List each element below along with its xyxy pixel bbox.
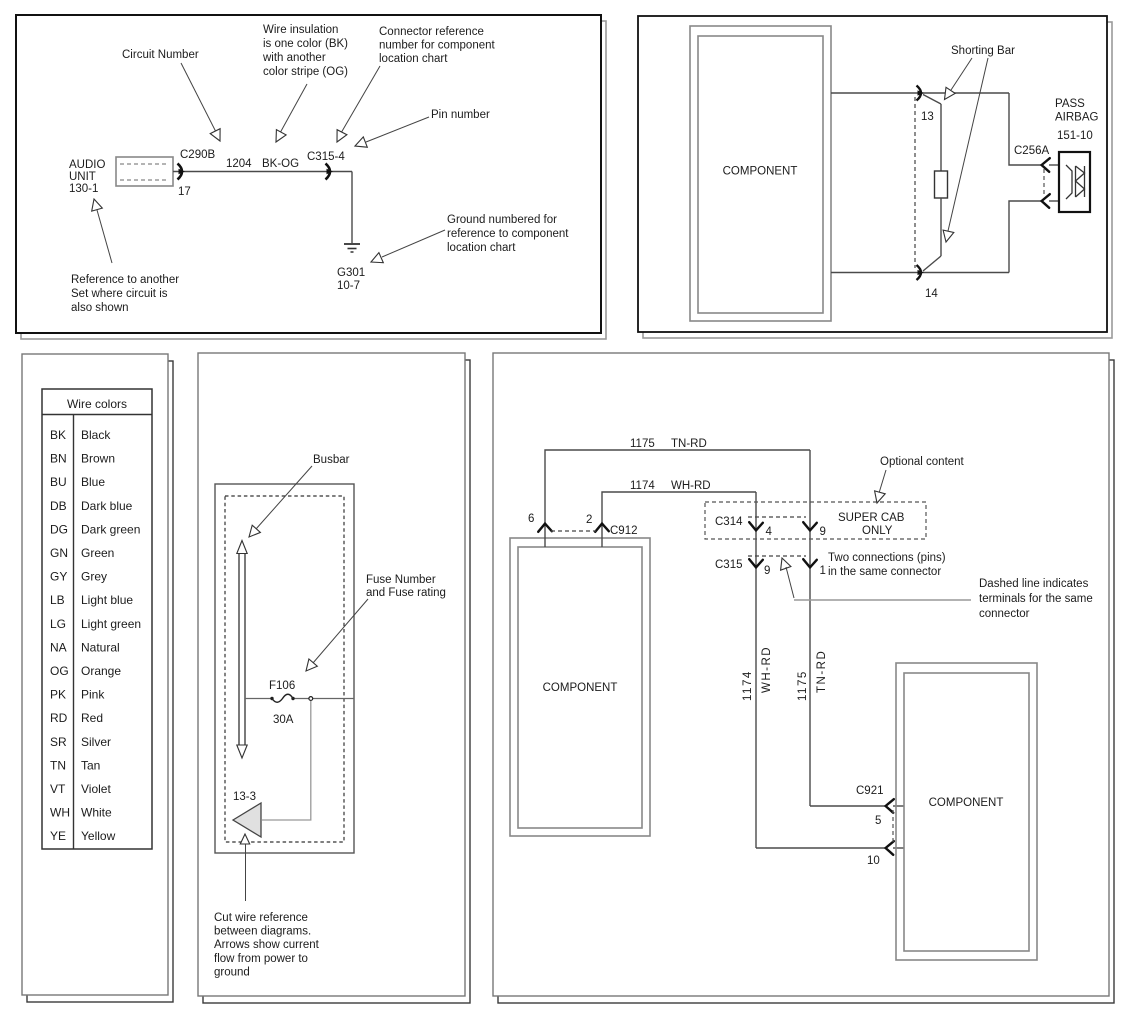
svg-text:TN-RD: TN-RD — [816, 650, 828, 693]
wire: 1175 to C921 pin 5 — [810, 805, 886, 807]
svg-text:9: 9 — [820, 526, 826, 538]
wire: audio unit to C315 — [173, 171, 352, 173]
chevron arrow C921 pin 5 (left) — [886, 799, 894, 813]
arrowhead: reference note (points up) — [92, 199, 103, 211]
svg-text:RD: RD — [50, 711, 68, 725]
leader: shorting bar 2 — [948, 58, 988, 231]
svg-text:Wire colors: Wire colors — [67, 397, 127, 411]
leader: circuit number — [181, 63, 216, 132]
shorting bar vertical wire upper — [940, 104, 942, 171]
wire: to pass airbag pin 1 — [1009, 93, 1042, 165]
arrowhead: pin number — [355, 137, 367, 147]
PANEL C : wire colors panel frame — [22, 354, 168, 995]
svg-text:BK: BK — [50, 428, 66, 442]
dashed connector line C256A — [1043, 169, 1045, 197]
leader line to dashed-line note text — [794, 599, 971, 601]
svg-text:Natural: Natural — [81, 640, 120, 654]
header underline — [42, 414, 152, 416]
arrowhead: fuse — [306, 659, 317, 671]
shorting bar element — [935, 171, 948, 198]
svg-text:number for component: number for component — [379, 40, 496, 52]
dashed connector line 13-14 — [914, 97, 916, 268]
svg-text:WH-RD: WH-RD — [671, 480, 711, 492]
svg-text:30A: 30A — [273, 714, 294, 726]
svg-text:C912: C912 — [610, 525, 638, 537]
svg-text:13-3: 13-3 — [233, 791, 256, 803]
chevron arrow C921 pin 10 (left) — [886, 841, 894, 855]
busbar bar — [238, 553, 240, 746]
chevron arrow pin 2 (up) — [595, 524, 609, 532]
arrowhead: shorting bar 1 — [945, 87, 956, 99]
leader: shorting bar 1 — [951, 58, 972, 90]
leader: fuse — [313, 599, 368, 663]
svg-text:G301: G301 — [337, 267, 365, 279]
chevron arrow pin 6 (up) — [538, 524, 552, 532]
fuse wire — [245, 698, 272, 700]
svg-text:is one color (BK): is one color (BK) — [263, 38, 348, 50]
svg-text:SR: SR — [50, 735, 67, 749]
PANEL D : busbar/fuse panel frame — [198, 353, 465, 996]
svg-text:1: 1 — [820, 565, 826, 577]
svg-text:Silver: Silver — [81, 735, 111, 749]
svg-text:Orange: Orange — [81, 664, 121, 678]
svg-text:C921: C921 — [856, 785, 884, 797]
svg-text:C256A: C256A — [1014, 145, 1049, 157]
leader: wire insulation — [280, 84, 307, 133]
pass airbag internal squib zigzag — [1075, 166, 1077, 197]
leader: cut wire note — [245, 844, 247, 901]
svg-text:UNIT: UNIT — [69, 171, 96, 183]
svg-text:1174: 1174 — [742, 670, 754, 701]
chevron arrow C315 pin 9 (down) — [749, 559, 763, 567]
cut wire reference big arrow — [233, 803, 261, 837]
svg-text:DB: DB — [50, 499, 67, 513]
wire: circuit 1175 TN-RD top run — [545, 450, 810, 547]
svg-text:Pin number: Pin number — [431, 109, 490, 121]
svg-text:GN: GN — [50, 546, 68, 560]
svg-text:WH: WH — [50, 806, 70, 820]
PANEL A : top-left legend panel shadow — [21, 21, 606, 339]
arrowhead: dashed line note (points up-left) — [781, 558, 791, 570]
arrowhead: wire insulation — [276, 130, 286, 142]
svg-text:Black: Black — [81, 428, 111, 442]
svg-text:ground: ground — [214, 966, 250, 978]
svg-text:Pink: Pink — [81, 688, 105, 702]
fuse block solid rect — [215, 484, 354, 853]
PANEL C : wire colors panel shadow — [27, 361, 173, 1002]
connector 14 diagonal — [923, 256, 941, 271]
wire stub pin1 to box — [1049, 164, 1059, 166]
ground G301 symbol — [344, 243, 360, 245]
svg-text:130-1: 130-1 — [69, 183, 98, 195]
wire: pin 14 from component — [831, 272, 1009, 274]
svg-text:NA: NA — [50, 640, 67, 654]
wire stub pin 10 — [893, 847, 904, 849]
svg-text:BN: BN — [50, 452, 67, 466]
svg-text:LB: LB — [50, 593, 65, 607]
leader: reference note — [97, 210, 112, 263]
svg-text:PASS: PASS — [1055, 98, 1085, 110]
svg-text:TN-RD: TN-RD — [671, 438, 707, 450]
svg-text:Two connections (pins): Two connections (pins) — [828, 552, 946, 564]
svg-text:10-7: 10-7 — [337, 280, 360, 292]
svg-text:between diagrams.: between diagrams. — [214, 926, 311, 938]
svg-text:Red: Red — [81, 711, 103, 725]
arrowhead: shorting bar 2 — [943, 230, 954, 242]
svg-text:Fuse Number: Fuse Number — [366, 574, 436, 586]
right component inner box — [904, 673, 1029, 951]
svg-text:Light green: Light green — [81, 617, 141, 631]
svg-text:F106: F106 — [269, 680, 295, 692]
arrowhead: cut wire note (points up) — [240, 834, 249, 844]
dashed connector line C315 — [748, 555, 806, 557]
svg-text:Ground numbered for: Ground numbered for — [447, 214, 557, 226]
arrowhead: circuit number — [210, 129, 220, 141]
svg-text:14: 14 — [925, 288, 938, 300]
wire: 1174 vertical drop — [755, 492, 757, 848]
connector 13 diagonal — [923, 95, 941, 105]
svg-text:13: 13 — [921, 111, 934, 123]
svg-text:Connector reference: Connector reference — [379, 26, 484, 38]
svg-text:also shown: also shown — [71, 302, 129, 314]
svg-text:BU: BU — [50, 475, 67, 489]
svg-text:C315: C315 — [715, 559, 743, 571]
svg-text:Yellow: Yellow — [81, 829, 116, 843]
fuse element — [272, 694, 293, 702]
svg-text:SUPER CAB: SUPER CAB — [838, 512, 905, 524]
wire: pin 13 from component — [831, 92, 1009, 94]
wire from fuse down to cut-wire arrow — [262, 701, 311, 820]
svg-text:AUDIO: AUDIO — [69, 159, 105, 171]
svg-text:OG: OG — [50, 664, 69, 678]
svg-text:Circuit Number: Circuit Number — [122, 49, 199, 61]
left component outer box — [510, 538, 650, 836]
svg-text:White: White — [81, 806, 112, 820]
wire: down to ground — [351, 172, 353, 244]
chevron arrow pin 2 (left) — [1042, 194, 1050, 208]
wire colors table frame — [42, 389, 152, 849]
svg-text:Optional content: Optional content — [880, 456, 965, 468]
right component outer box — [896, 663, 1037, 960]
wire: to pass airbag pin 2 — [1009, 201, 1042, 273]
svg-text:reference to component: reference to component — [447, 228, 569, 240]
svg-text:GY: GY — [50, 570, 67, 584]
wire: 1174 to C921 pin 10 — [756, 847, 886, 849]
svg-text:1174: 1174 — [630, 480, 655, 492]
svg-text:Cut wire reference: Cut wire reference — [214, 912, 308, 924]
svg-text:terminals for the same: terminals for the same — [979, 593, 1093, 605]
svg-text:DG: DG — [50, 522, 68, 536]
svg-text:9: 9 — [764, 565, 770, 577]
svg-text:Wire insulation: Wire insulation — [263, 24, 338, 36]
svg-text:4: 4 — [766, 526, 773, 538]
svg-text:location chart: location chart — [447, 242, 516, 254]
svg-text:COMPONENT: COMPONENT — [723, 166, 798, 178]
svg-text:Dark green: Dark green — [81, 522, 140, 536]
svg-text:C315-4: C315-4 — [307, 151, 345, 163]
svg-text:BK-OG: BK-OG — [262, 158, 299, 170]
super cab only dashed box — [705, 502, 926, 539]
svg-text:COMPONENT: COMPONENT — [543, 682, 618, 694]
svg-text:COMPONENT: COMPONENT — [929, 797, 1004, 809]
chevron arrow C314 pin 4 (down) — [749, 522, 763, 530]
wire: 1175 vertical drop — [809, 450, 811, 806]
svg-text:Grey: Grey — [81, 570, 107, 584]
svg-text:1175: 1175 — [797, 670, 809, 701]
chevron arrow C315 pin 1 (down) — [803, 559, 817, 567]
svg-text:Dashed line indicates: Dashed line indicates — [979, 578, 1089, 590]
svg-text:Set where circuit is: Set where circuit is — [71, 288, 168, 300]
svg-text:in the same connector: in the same connector — [828, 566, 941, 578]
dashed connector line C912 — [551, 530, 596, 532]
svg-text:WH-RD: WH-RD — [761, 646, 773, 693]
pass airbag internal bracket — [1066, 165, 1072, 199]
svg-text:1175: 1175 — [630, 438, 655, 450]
arrowhead: busbar — [249, 525, 260, 537]
svg-text:flow from power to: flow from power to — [214, 953, 308, 965]
fuse output node circle — [309, 697, 313, 701]
svg-text:Brown: Brown — [81, 452, 115, 466]
svg-text:Shorting Bar: Shorting Bar — [951, 45, 1015, 57]
connector C290B arc — [178, 164, 183, 180]
svg-text:Green: Green — [81, 546, 114, 560]
svg-text:TN: TN — [50, 758, 66, 772]
arrowhead: connector reference — [337, 130, 347, 142]
leader: connector reference — [341, 66, 380, 133]
dashed connector line C921 — [892, 810, 894, 844]
PANEL B : top-right panel frame — [638, 16, 1107, 332]
component box dashed inner lines — [120, 163, 169, 165]
svg-text:Arrows show current: Arrows show current — [214, 939, 320, 951]
svg-text:2: 2 — [586, 514, 592, 526]
svg-text:YE: YE — [50, 829, 66, 843]
svg-text:Blue: Blue — [81, 475, 105, 489]
svg-text:with another: with another — [262, 52, 326, 64]
shorting bar vertical wire lower — [940, 198, 942, 256]
connector C315-4 arc — [326, 164, 331, 180]
connector 14 arc — [917, 265, 922, 280]
svg-text:C314: C314 — [715, 516, 743, 528]
chevron arrow C314 pin 9 (down) — [803, 522, 817, 530]
svg-text:Busbar: Busbar — [313, 454, 350, 466]
svg-text:5: 5 — [875, 815, 881, 827]
fuse block dashed rect — [225, 496, 344, 842]
busbar top triangle — [237, 541, 247, 554]
arrowhead: optional content (points down) — [875, 491, 886, 503]
PANEL E : right connectors panel shadow — [498, 360, 1114, 1003]
svg-text:1204: 1204 — [226, 158, 252, 170]
svg-text:Tan: Tan — [81, 758, 100, 772]
svg-text:and Fuse rating: and Fuse rating — [366, 587, 446, 599]
svg-text:Reference to another: Reference to another — [71, 274, 179, 286]
table column divider — [73, 415, 75, 850]
dashed connector line C314 — [748, 516, 806, 518]
arrowhead: ground note — [371, 253, 383, 263]
svg-text:ONLY: ONLY — [862, 525, 893, 537]
svg-text:Light blue: Light blue — [81, 593, 133, 607]
svg-text:LG: LG — [50, 617, 66, 631]
svg-text:6: 6 — [528, 513, 534, 525]
svg-text:Dark blue: Dark blue — [81, 499, 133, 513]
leader: pin number — [366, 117, 429, 142]
svg-text:AIRBAG: AIRBAG — [1055, 112, 1099, 124]
leader: optional content — [879, 470, 886, 493]
svg-text:17: 17 — [178, 186, 191, 198]
svg-text:PK: PK — [50, 688, 66, 702]
leader: ground note — [382, 230, 445, 257]
leader: dashed line note — [786, 567, 794, 598]
svg-text:10: 10 — [867, 855, 880, 867]
component box (audio unit) — [116, 157, 173, 186]
wire stub pin2 to box — [1049, 200, 1059, 202]
PANEL E : right connectors panel frame — [493, 353, 1109, 996]
svg-text:Violet: Violet — [81, 782, 111, 796]
busbar bottom triangle — [237, 745, 247, 758]
leader: busbar — [256, 466, 312, 529]
svg-text:151-10: 151-10 — [1057, 130, 1093, 142]
svg-text:C290B: C290B — [180, 149, 215, 161]
PANEL B : top-right panel shadow — [643, 22, 1112, 338]
component box outer (top-right panel) — [690, 26, 831, 321]
PANEL D : busbar/fuse panel shadow — [203, 360, 470, 1003]
component box inner — [698, 36, 823, 313]
svg-text:connector: connector — [979, 608, 1030, 620]
pass airbag component box — [1059, 152, 1090, 212]
svg-text:location chart: location chart — [379, 53, 448, 65]
PANEL A : top-left legend panel frame — [16, 15, 601, 333]
chevron arrow pin 1 (left) — [1042, 158, 1050, 172]
svg-text:color stripe (OG): color stripe (OG) — [263, 66, 348, 78]
connector 13 arc — [917, 86, 922, 101]
wire: circuit 1174 WH-RD top run — [602, 492, 756, 547]
svg-text:VT: VT — [50, 782, 66, 796]
left component inner box — [518, 547, 642, 828]
wire stub pin 5 — [893, 805, 904, 807]
